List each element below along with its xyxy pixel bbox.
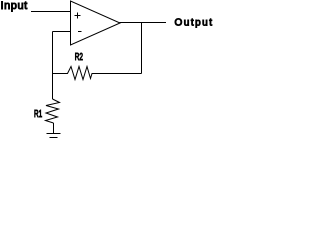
svg-text:Output: Output <box>175 18 214 29</box>
svg-text:Input: Input <box>1 0 28 12</box>
label R2 <box>75 52 83 63</box>
svg-text:R1: R1 <box>34 109 42 120</box>
resistor R1 <box>46 99 60 123</box>
op-amp U1 plus pin marker <box>75 13 81 19</box>
wire inverting pin <box>53 31 71 33</box>
op-amp U1 minus pin marker <box>78 31 82 33</box>
node Input label <box>1 0 28 12</box>
op-amp U1 body <box>71 1 121 45</box>
ground <box>47 134 61 138</box>
wire feedback vertical to R1/R2 node <box>52 32 54 100</box>
label R1 <box>34 109 42 120</box>
wire feedback from output node down to R2 <box>141 23 143 74</box>
wire R1 to ground <box>53 123 55 134</box>
node Output label <box>175 18 214 29</box>
svg-text:R2: R2 <box>75 52 83 63</box>
wire output <box>120 22 167 24</box>
wire input to noninverting pin <box>31 11 71 13</box>
resistor R2 <box>53 67 142 80</box>
